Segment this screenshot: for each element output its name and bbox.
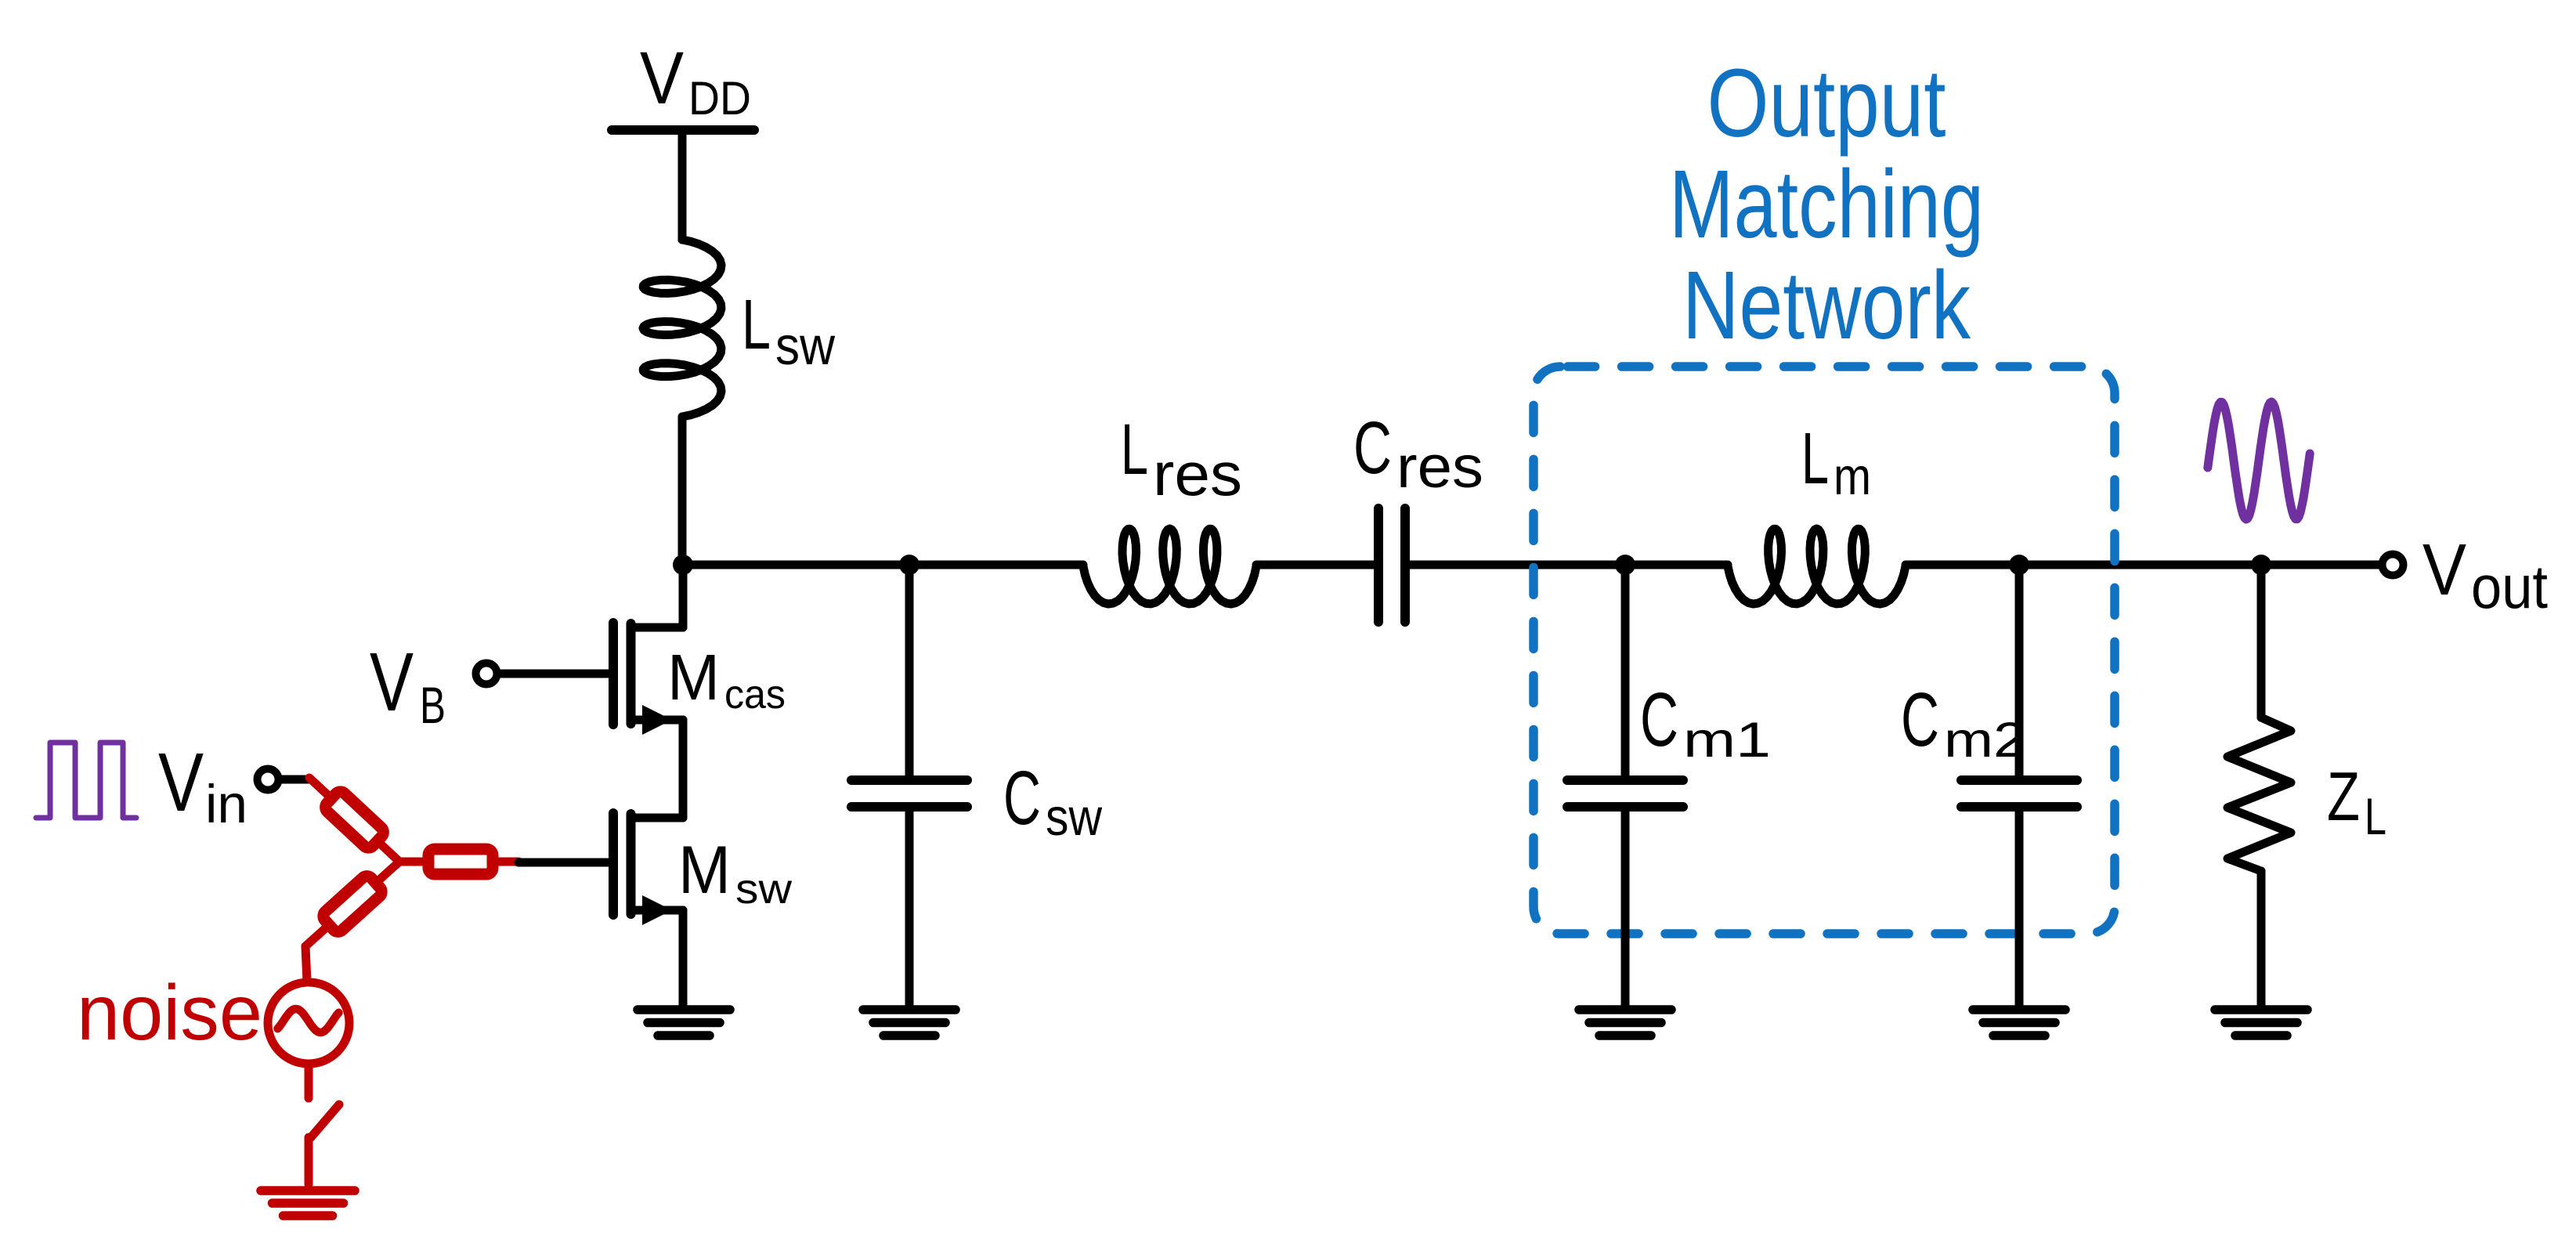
svg-text:noise: noise — [77, 969, 262, 1057]
svg-text:Network: Network — [1682, 252, 1971, 360]
svg-text:Matching: Matching — [1669, 151, 1984, 258]
svg-text:Output: Output — [1707, 50, 1946, 157]
